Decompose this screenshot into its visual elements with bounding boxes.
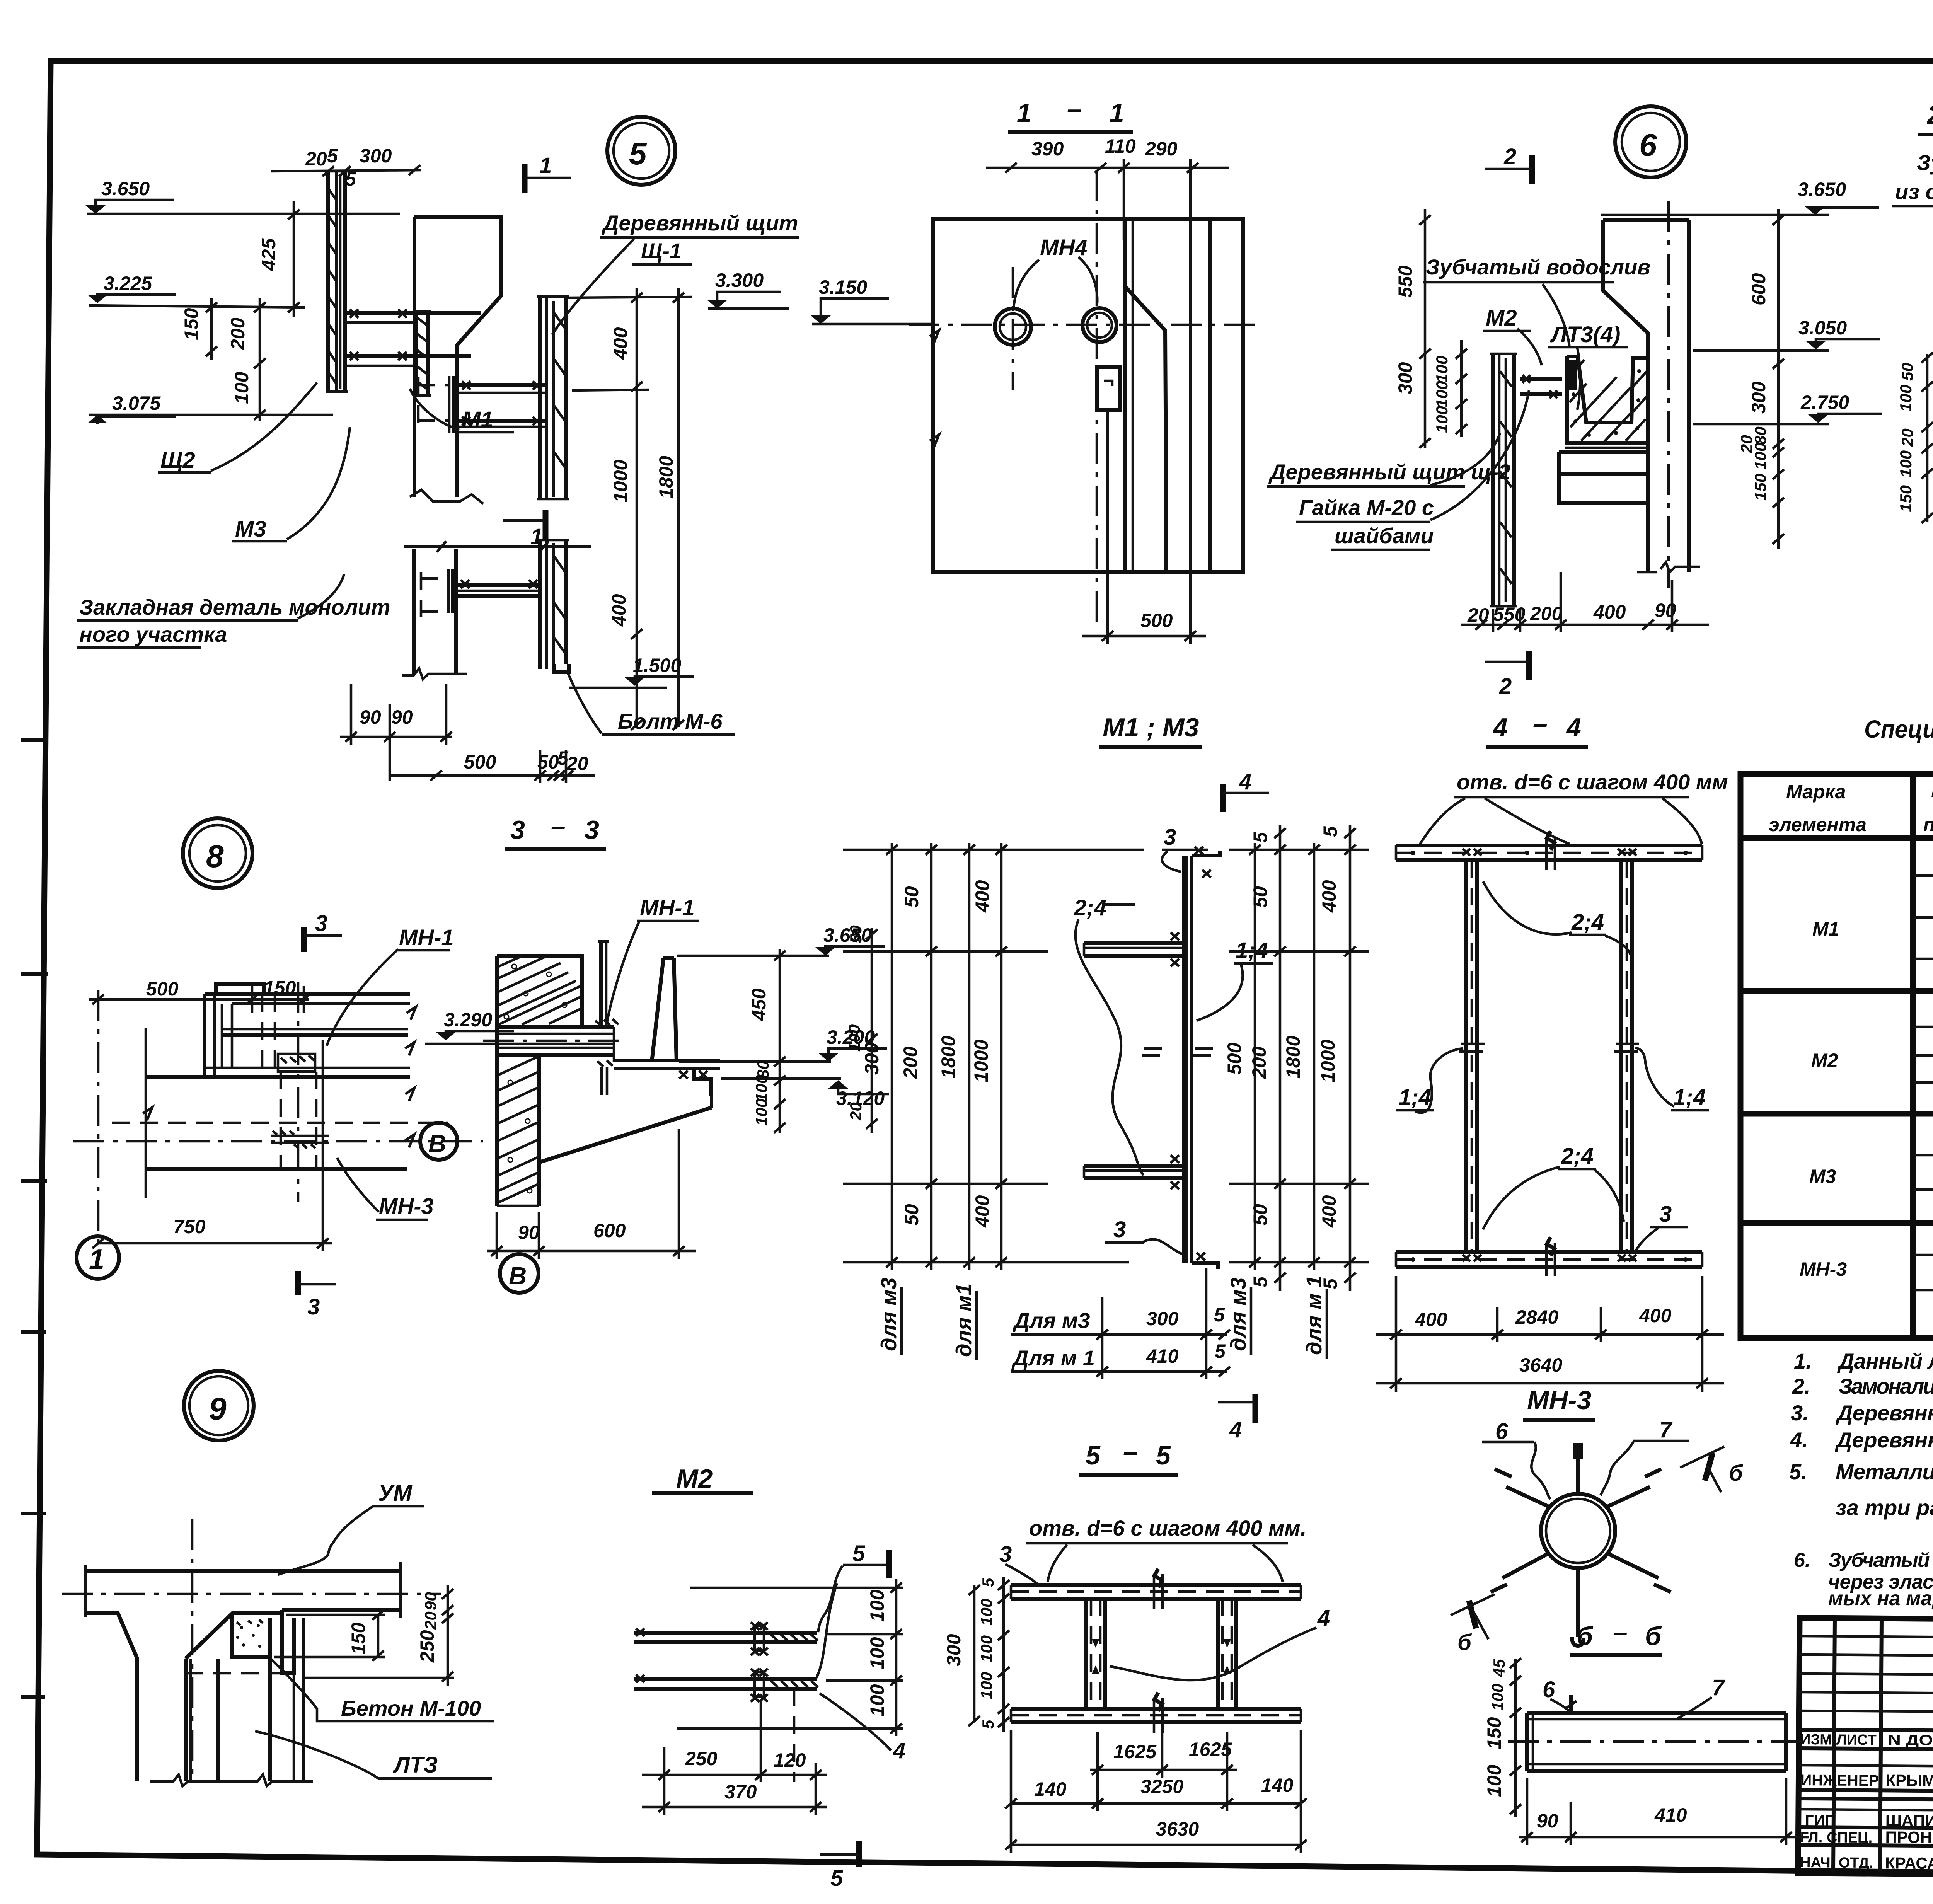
M3 block rows [1913, 1154, 1933, 1157]
svg-text:300: 300 [943, 1634, 965, 1666]
svg-text:3.075: 3.075 [112, 392, 161, 414]
outer frame [1798, 1618, 1933, 1878]
node В bubble [500, 1254, 539, 1293]
upper angle beams M3 [345, 311, 481, 315]
svg-text:2;4: 2;4 [1571, 910, 1604, 935]
svg-text:3.300: 3.300 [715, 269, 764, 291]
svg-text:КРАСАВИН: КРАСАВИН [1885, 1854, 1933, 1872]
svg-text:400: 400 [1593, 601, 1626, 623]
node В bubble [420, 1123, 457, 1160]
svg-text:4: 4 [1229, 1417, 1242, 1442]
svg-text:поз.: поз. [1923, 814, 1933, 835]
svg-text:В: В [509, 1262, 527, 1290]
svg-text:200: 200 [1530, 603, 1563, 624]
DETAIL66 [1483, 1618, 1809, 1845]
svg-text:3.650: 3.650 [1798, 179, 1846, 200]
svg-text:отв. d=6 с шагом 400 мм.: отв. d=6 с шагом 400 мм. [1029, 1516, 1306, 1540]
svg-text:300: 300 [1748, 381, 1769, 414]
wire bracket under channel [614, 1059, 720, 1062]
svg-text:550: 550 [1394, 265, 1416, 298]
svg-text:М1: М1 [1812, 918, 1839, 940]
svg-text:мых на марке М-2.: мых на марке М-2. [1828, 1587, 1933, 1610]
svg-text:1625: 1625 [1189, 1739, 1232, 1760]
svg-text:3.: 3. [1791, 1401, 1809, 1425]
slab band [497, 1025, 614, 1029]
svg-text:200: 200 [1248, 1046, 1270, 1079]
svg-text:100: 100 [977, 1672, 995, 1699]
upper T-bar [1084, 941, 1184, 945]
svg-text:3: 3 [999, 1542, 1012, 1567]
dim chain right [779, 949, 781, 1133]
verticals [1910, 774, 1916, 1338]
svg-text:20: 20 [305, 148, 327, 170]
wire lower beam + embedded plate [456, 583, 540, 587]
section mark 1 bottom [543, 510, 549, 540]
svg-text:МН-3: МН-3 [1800, 1258, 1847, 1280]
svg-text:для м1: для м1 [951, 1283, 976, 1357]
dims right 600 300 [1777, 209, 1780, 549]
svg-text:3: 3 [585, 815, 599, 845]
svg-text:140: 140 [1261, 1774, 1294, 1796]
svg-text:400: 400 [1318, 880, 1340, 913]
svg-text:НАЧ. ОТД.: НАЧ. ОТД. [1800, 1855, 1873, 1871]
joint symbols [1154, 1574, 1163, 1733]
svg-text:Болт М-6: Болт М-6 [618, 709, 723, 733]
section mark 2 top [1529, 155, 1535, 184]
svg-text:б: б [1645, 1621, 1662, 1651]
svg-text:9: 9 [209, 1391, 227, 1427]
svg-text:–: – [1613, 1618, 1628, 1647]
svg-text:50: 50 [901, 886, 922, 908]
dim 425 [293, 201, 295, 317]
svg-text:90: 90 [1537, 1810, 1558, 1832]
svg-text:3.150: 3.150 [819, 276, 867, 298]
DETAIL8 [73, 818, 615, 1319]
svg-text:3640: 3640 [1519, 1354, 1562, 1376]
svg-text:Марка: Марка [1786, 781, 1846, 803]
svg-text:500: 500 [1140, 610, 1173, 631]
left dim chains [891, 843, 893, 1270]
svg-text:1800: 1800 [655, 456, 677, 499]
svg-text:100: 100 [866, 1589, 888, 1622]
svg-text:№: № [1931, 780, 1933, 801]
svg-text:элемента: элемента [1769, 814, 1867, 835]
x marks and dots [1463, 849, 1636, 1261]
svg-text:300: 300 [1394, 362, 1416, 394]
svg-text:20: 20 [1467, 604, 1489, 626]
svg-text:1.500: 1.500 [633, 655, 681, 676]
wall concrete upper [497, 956, 582, 1027]
svg-text:Данный лист см. совместно с ли: Данный лист см. совместно с листом КЖ- 1… [1837, 1349, 1933, 1373]
corbel hatch бетон [232, 1613, 270, 1657]
svg-text:В: В [428, 1130, 446, 1157]
svg-text:50: 50 [1249, 886, 1271, 908]
svg-text:5: 5 [1214, 1304, 1225, 1326]
dim 150 [377, 1615, 380, 1657]
svg-text:100: 100 [1488, 1684, 1507, 1711]
svg-text:100: 100 [231, 372, 252, 404]
dim chain right 100x3 [895, 1579, 898, 1736]
tube [1527, 1711, 1786, 1715]
vertical angle bar [1182, 856, 1186, 1263]
svg-text:4: 4 [1492, 713, 1508, 742]
section mark 1 top [522, 164, 528, 193]
wire top beam [85, 1569, 401, 1573]
section mark 2 bottom [1526, 651, 1532, 680]
svg-text:100: 100 [866, 1637, 888, 1669]
small 3-3 chain [871, 928, 873, 1133]
svg-text:за три раза.: за три раза. [1836, 1495, 1933, 1520]
svg-text:500: 500 [146, 978, 179, 1000]
holes МН4 [995, 309, 1031, 345]
svg-text:20: 20 [847, 1102, 865, 1121]
svg-text:Деревянные щиты крепить к мета: Деревянные щиты крепить к металлическим … [1836, 1401, 1933, 1425]
svg-text:КРЫМСКИЙ: КРЫМСКИЙ [1885, 1771, 1933, 1790]
svg-text:90: 90 [518, 1222, 540, 1243]
wire channel LT3 trough [1567, 356, 1648, 423]
mid splice [1142, 1048, 1213, 1055]
svg-text:–: – [551, 811, 566, 841]
svg-text:МН-1: МН-1 [399, 925, 454, 950]
svg-text:100: 100 [752, 1099, 770, 1126]
wood plank Щ-1 [538, 297, 542, 499]
svg-text:100: 100 [1433, 381, 1451, 408]
wire channel walls below [189, 1659, 192, 1781]
svg-text:М3: М3 [1809, 1166, 1836, 1187]
svg-text:600: 600 [593, 1220, 626, 1241]
svg-text:3.650: 3.650 [101, 178, 150, 199]
svg-text:5: 5 [830, 1866, 843, 1891]
svg-text:Гайка М-20 с: Гайка М-20 с [1299, 495, 1434, 520]
svg-text:150: 150 [1751, 474, 1769, 501]
svg-text:1800: 1800 [938, 1036, 959, 1079]
svg-text:100: 100 [752, 1075, 770, 1102]
svg-text:5: 5 [979, 1578, 997, 1587]
svg-text:2: 2 [1499, 674, 1512, 699]
svg-text:450: 450 [748, 988, 770, 1021]
svg-text:М1 ; М3: М1 ; М3 [1103, 713, 1199, 742]
svg-text:5: 5 [979, 1720, 997, 1729]
svg-text:Деревянный щит щ-2: Деревянный щит щ-2 [1268, 460, 1510, 484]
svg-text:100: 100 [845, 1024, 863, 1052]
svg-text:150: 150 [348, 1622, 369, 1655]
svg-text:400: 400 [1639, 1305, 1672, 1326]
top plate [1396, 844, 1702, 847]
svg-text:отв. d=6 с шагом 400 мм: отв. d=6 с шагом 400 мм [1457, 770, 1728, 794]
svg-text:5.: 5. [1789, 1459, 1807, 1484]
svg-text:М1: М1 [462, 407, 493, 432]
wall lower + corbel [537, 1055, 541, 1206]
svg-text:2.750: 2.750 [1800, 392, 1849, 413]
svg-text:М3: М3 [235, 516, 266, 542]
svg-text:750: 750 [173, 1216, 206, 1238]
svg-text:100: 100 [866, 1684, 888, 1716]
wire break top [410, 490, 483, 504]
svg-text:МН-3: МН-3 [379, 1194, 434, 1219]
left zone rows [1799, 1636, 1933, 1713]
svg-text:370: 370 [724, 1781, 757, 1803]
bracket plan [216, 984, 264, 994]
bolt plan [278, 1054, 315, 1072]
node 9 bubble [184, 1371, 254, 1440]
node 8 bubble [183, 818, 252, 888]
svg-text:50: 50 [1249, 1204, 1271, 1226]
svg-text:400: 400 [1415, 1309, 1447, 1330]
svg-text:1800: 1800 [1282, 1036, 1304, 1079]
svg-text:для м3: для м3 [1226, 1277, 1250, 1351]
svg-text:1: 1 [539, 153, 552, 178]
wire plank Щ-2 [1491, 354, 1495, 606]
svg-text:50: 50 [901, 1204, 922, 1226]
svg-text:1: 1 [1110, 98, 1124, 128]
beam M1 [452, 383, 545, 387]
svg-text:4: 4 [893, 1738, 905, 1763]
svg-text:М2: М2 [1486, 305, 1517, 331]
svg-text:250: 250 [416, 1630, 438, 1663]
inner verticals [1123, 219, 1127, 572]
M2 block rows [1913, 1026, 1933, 1028]
dims left 550 300 [1424, 209, 1427, 448]
svg-text:7: 7 [1659, 1417, 1673, 1442]
svg-text:ГИП: ГИП [1805, 1812, 1836, 1829]
NOTES [1789, 1349, 1933, 1610]
svg-text:5: 5 [629, 136, 647, 171]
svg-text:1.: 1. [1794, 1349, 1812, 1373]
svg-text:20: 20 [1898, 428, 1916, 447]
svg-text:Деревянные щиты разработаны на: Деревянные щиты разработаны на листе КЖ-… [1835, 1428, 1933, 1452]
SPECTABLE [1740, 715, 1933, 1338]
DETAIL9 [62, 1371, 494, 1786]
hold-down piece [600, 1067, 603, 1095]
svg-text:6: 6 [1495, 1419, 1508, 1444]
svg-text:1000: 1000 [1317, 1040, 1339, 1082]
svg-text:8: 8 [206, 839, 224, 874]
svg-text:6: 6 [1543, 1677, 1555, 1702]
node 1 bubble [77, 1236, 119, 1279]
DETAILM2 [634, 1464, 905, 1891]
svg-text:ЛТЗ: ЛТЗ [393, 1752, 438, 1778]
svg-text:150: 150 [181, 308, 202, 340]
svg-text:1;4: 1;4 [1673, 1085, 1706, 1110]
wood plank Щ2 section [326, 171, 330, 392]
TITLEBLOCK [1798, 1618, 1933, 1878]
DETAIL33 [483, 811, 889, 1293]
svg-text:б: б [1729, 1461, 1744, 1486]
svg-text:400: 400 [1318, 1195, 1340, 1228]
svg-text:2;4: 2;4 [1074, 895, 1106, 920]
svg-text:1: 1 [89, 1244, 104, 1275]
svg-text:МН4: МН4 [1040, 235, 1087, 260]
DETAIL22 [1892, 96, 1933, 645]
svg-text:5: 5 [345, 168, 356, 190]
svg-text:Зубчатый водослив крепится к л: Зубчатый водослив крепится к лоткам ЛТ-3… [1828, 1549, 1933, 1572]
joint symbols plates [1546, 837, 1555, 1276]
wire bracket beam [1520, 377, 1562, 381]
lower T-bar [1084, 1164, 1184, 1168]
svg-text:Замоналичивание торцов лотков: Замоналичивание торцов лотков выполнять … [1839, 1374, 1933, 1398]
svg-text:90: 90 [360, 706, 381, 728]
dims left [1514, 1659, 1517, 1817]
DETAILMN3 [1451, 1386, 1744, 1655]
svg-text:6.: 6. [1794, 1549, 1810, 1572]
svg-text:4: 4 [1566, 713, 1581, 742]
section mark 3 bottom [295, 1271, 301, 1295]
svg-text:4: 4 [1317, 1606, 1330, 1631]
wire column [1603, 220, 1648, 572]
svg-text:2;4: 2;4 [1561, 1144, 1594, 1169]
svg-text:150: 150 [1483, 1717, 1505, 1749]
svg-text:3.225: 3.225 [104, 273, 152, 294]
svg-text:100: 100 [977, 1599, 995, 1626]
svg-text:Деревянный щит: Деревянный щит [602, 211, 798, 235]
svg-text:3.290: 3.290 [444, 1009, 492, 1031]
centerline horizontal [909, 324, 1256, 326]
bar 1 [634, 1631, 817, 1635]
beam МН-3 plan [146, 1075, 407, 1079]
ground line [150, 1774, 313, 1786]
svg-text:1000: 1000 [610, 460, 631, 503]
svg-text:2.: 2. [1792, 1374, 1810, 1398]
svg-text:100: 100 [1433, 406, 1451, 433]
svg-text:6: 6 [1639, 128, 1657, 163]
svg-text:5: 5 [1086, 1441, 1101, 1470]
svg-text:1: 1 [530, 524, 543, 549]
svg-text:ГЛ. СПЕЦ.: ГЛ. СПЕЦ. [1800, 1829, 1872, 1846]
svg-text:3: 3 [1659, 1202, 1672, 1227]
post joints [1459, 1044, 1639, 1052]
svg-text:Зубчатый водослив: Зубчатый водослив [1426, 255, 1650, 279]
anchor plate [599, 941, 603, 1027]
left zone verticals [1833, 1618, 1835, 1873]
dim chain right 400 1000 400 [636, 288, 638, 727]
dim chain left [1926, 354, 1929, 522]
M1 block rows [1913, 874, 1933, 877]
svg-text:5: 5 [1215, 1340, 1226, 1362]
svg-text:N ДОКУМ.: N ДОКУМ. [1888, 1732, 1933, 1749]
DETAIL55 [943, 1437, 1330, 1853]
svg-text:390: 390 [1031, 138, 1064, 160]
wire column with corbel [85, 1613, 137, 1781]
svg-text:Металлические марки покрасить: Металлические марки покрасить эмалью ЭП-… [1836, 1459, 1933, 1484]
svg-text:600: 600 [1748, 273, 1769, 305]
svg-text:б: б [1577, 1621, 1594, 1651]
svg-text:3: 3 [307, 1294, 320, 1319]
DETAIL11 [707, 94, 1256, 644]
svg-text:Щ-1: Щ-1 [641, 239, 682, 263]
svg-text:ПРОНИН: ПРОНИН [1885, 1828, 1933, 1846]
svg-text:2840: 2840 [1515, 1306, 1558, 1328]
svg-text:Для м3: Для м3 [1013, 1308, 1090, 1333]
svg-text:Спецификация металла на одну м: Спецификация металла на одну марку [1864, 715, 1933, 743]
DETAIL6 [1267, 106, 1882, 699]
svg-text:ШАПИРО: ШАПИРО [1885, 1811, 1933, 1830]
svg-text:1625: 1625 [1113, 1741, 1157, 1763]
svg-text:500: 500 [464, 751, 496, 773]
svg-text:7: 7 [1712, 1675, 1725, 1700]
svg-text:Для м 1: Для м 1 [1011, 1346, 1095, 1370]
svg-text:ИЗМ.: ИЗМ. [1800, 1732, 1836, 1748]
svg-text:3250: 3250 [1140, 1776, 1183, 1797]
section mark 3 top [301, 927, 307, 952]
svg-text:3: 3 [1164, 825, 1176, 850]
svg-text:5: 5 [1249, 832, 1271, 843]
MN-3 block rows [1913, 1254, 1933, 1256]
svg-text:50: 50 [847, 925, 865, 943]
svg-text:36‌30: 36‌30 [1156, 1818, 1199, 1840]
svg-text:300: 300 [1146, 1308, 1179, 1330]
svg-text:5: 5 [1319, 826, 1341, 837]
svg-text:3: 3 [1113, 1217, 1126, 1242]
svg-text:3: 3 [315, 911, 327, 936]
svg-text:20: 20 [566, 753, 588, 774]
wire wall outline [414, 217, 501, 497]
hub star [1541, 1494, 1615, 1568]
svg-text:5: 5 [1249, 1276, 1271, 1287]
svg-text:425: 425 [258, 238, 280, 271]
svg-text:50: 50 [1898, 363, 1916, 381]
svg-text:–: – [1123, 1437, 1138, 1466]
svg-text:5: 5 [1156, 1441, 1171, 1470]
svg-text:5: 5 [852, 1541, 865, 1566]
svg-text:100: 100 [1751, 443, 1769, 470]
svg-text:из оцинкованной стали δ=0,7мм: из оцинкованной стали δ=0,7мм [1895, 179, 1933, 204]
channel wall section [652, 958, 663, 1062]
svg-text:М2: М2 [1811, 1050, 1838, 1071]
svg-text:1;4: 1;4 [1399, 1085, 1431, 1110]
svg-text:2: 2 [1926, 100, 1933, 130]
DETAIL5 [77, 117, 799, 783]
svg-text:1: 1 [1017, 98, 1031, 128]
svg-text:90: 90 [391, 706, 413, 728]
svg-text:2: 2 [1503, 144, 1516, 169]
embedded strip [414, 311, 418, 395]
top plate [1011, 1583, 1301, 1587]
svg-text:410: 410 [1146, 1345, 1179, 1367]
wire base slab [1559, 452, 1648, 503]
svg-text:3: 3 [510, 815, 525, 845]
svg-text:100: 100 [1483, 1764, 1505, 1797]
dim 150 200 100 [210, 298, 213, 360]
svg-text:–: – [1533, 709, 1548, 738]
svg-text:4: 4 [1239, 769, 1251, 794]
svg-text:20: 20 [421, 1611, 440, 1630]
svg-text:УМ: УМ [378, 1481, 413, 1506]
svg-text:290: 290 [1145, 138, 1178, 160]
bottom plate [1011, 1707, 1301, 1711]
node 5 bubble [607, 117, 675, 185]
svg-text:МН-1: МН-1 [640, 895, 695, 920]
svg-text:ИНЖЕНЕР: ИНЖЕНЕР [1800, 1772, 1879, 1789]
svg-text:410: 410 [1654, 1804, 1687, 1826]
svg-text:100: 100 [1897, 450, 1915, 477]
table frame [1740, 774, 1933, 1338]
svg-text:45: 45 [1490, 1659, 1508, 1677]
svg-text:400: 400 [972, 880, 993, 913]
svg-text:200: 200 [900, 1046, 921, 1079]
svg-text:150: 150 [1897, 485, 1915, 512]
svg-text:шайбами: шайбами [1335, 523, 1434, 548]
svg-text:Бетон М-100: Бетон М-100 [341, 1696, 481, 1720]
dim chain left [1002, 1577, 1005, 1732]
svg-text:Зубчатый водослив: Зубчатый водослив [1917, 150, 1933, 175]
svg-text:400: 400 [610, 327, 631, 360]
section mark 4 bottom [1253, 1394, 1258, 1423]
svg-text:100: 100 [1433, 356, 1451, 383]
svg-text:100: 100 [1897, 385, 1915, 412]
svg-text:–: – [1067, 94, 1082, 124]
bar 2 [634, 1677, 817, 1681]
svg-text:200: 200 [227, 317, 249, 350]
